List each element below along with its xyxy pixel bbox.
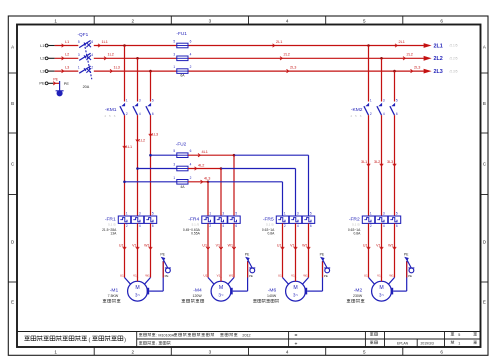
svg-text:PE: PE bbox=[39, 82, 45, 86]
svg-text:1L1: 1L1 bbox=[102, 40, 108, 44]
svg-text:3: 3 bbox=[173, 52, 175, 56]
svg-text:W1: W1 bbox=[228, 243, 233, 247]
svg-text:1: 1 bbox=[370, 212, 372, 216]
svg-text:2: 2 bbox=[126, 224, 128, 228]
svg-text:1L2: 1L2 bbox=[139, 138, 145, 142]
svg-text:U1: U1 bbox=[119, 243, 124, 247]
svg-text:5: 5 bbox=[173, 40, 175, 44]
svg-text:0.8A: 0.8A bbox=[268, 232, 276, 236]
svg-text:2L1: 2L1 bbox=[399, 40, 405, 44]
svg-text:1: 1 bbox=[458, 341, 460, 345]
svg-text:140W: 140W bbox=[267, 294, 277, 298]
svg-text:1: 1 bbox=[54, 18, 57, 23]
svg-text:/2.3/5: /2.3/5 bbox=[450, 69, 458, 73]
svg-text:4: 4 bbox=[383, 112, 385, 116]
svg-text:5: 5 bbox=[152, 212, 154, 216]
svg-text:3~: 3~ bbox=[293, 293, 299, 298]
svg-text:3: 3 bbox=[383, 212, 385, 216]
svg-text:4L2: 4L2 bbox=[198, 163, 204, 167]
svg-text:1: 1 bbox=[126, 99, 128, 103]
svg-text:2: 2 bbox=[370, 224, 372, 228]
svg-text:4: 4 bbox=[139, 224, 141, 228]
svg-text:5: 5 bbox=[363, 350, 366, 355]
svg-text:2L2: 2L2 bbox=[284, 53, 290, 57]
svg-text:+: + bbox=[295, 341, 298, 347]
svg-text:6: 6 bbox=[190, 40, 192, 44]
svg-text:A: A bbox=[483, 45, 486, 50]
svg-text:5.1 /5: 5.1 /5 bbox=[108, 223, 116, 227]
svg-text:1: 1 bbox=[54, 350, 57, 355]
svg-text:-FR2: -FR2 bbox=[349, 216, 360, 222]
svg-text:PE: PE bbox=[249, 274, 253, 278]
svg-text:4 5 6: 4 5 6 bbox=[350, 114, 362, 118]
svg-text:6: 6 bbox=[396, 224, 398, 228]
svg-text:6: 6 bbox=[235, 224, 237, 228]
svg-text:5: 5 bbox=[152, 99, 154, 103]
svg-text:-M6: -M6 bbox=[268, 287, 277, 293]
svg-text:5.1 /5: 5.1 /5 bbox=[192, 223, 200, 227]
svg-text:-KM1: -KM1 bbox=[105, 107, 117, 113]
svg-text:2019/3/3: 2019/3/3 bbox=[421, 341, 434, 345]
svg-text:4: 4 bbox=[286, 18, 289, 23]
svg-text:EPLAN: EPLAN bbox=[397, 341, 409, 345]
svg-text:-FU1: -FU1 bbox=[176, 31, 187, 36]
svg-text:U1: U1 bbox=[278, 274, 282, 278]
svg-text:-FR1: -FR1 bbox=[105, 216, 116, 222]
svg-text:W1: W1 bbox=[389, 274, 394, 278]
svg-text:W1: W1 bbox=[388, 243, 393, 247]
svg-text:5: 5 bbox=[396, 99, 398, 103]
svg-text:120W: 120W bbox=[193, 294, 203, 298]
svg-text:B: B bbox=[483, 101, 486, 106]
svg-text:2L3: 2L3 bbox=[290, 66, 296, 70]
svg-text:V1: V1 bbox=[133, 274, 137, 278]
svg-text:2: 2 bbox=[91, 66, 93, 70]
svg-text:3: 3 bbox=[139, 99, 141, 103]
svg-text:3L3: 3L3 bbox=[387, 160, 393, 164]
svg-text:PE: PE bbox=[160, 252, 165, 256]
svg-text::: : bbox=[156, 334, 157, 338]
svg-text:2: 2 bbox=[209, 224, 211, 228]
svg-text:3L2: 3L2 bbox=[374, 160, 380, 164]
svg-text:V1: V1 bbox=[290, 243, 294, 247]
svg-text:1L3: 1L3 bbox=[114, 66, 120, 70]
svg-text:PE: PE bbox=[64, 82, 70, 86]
svg-text:2: 2 bbox=[131, 350, 134, 355]
svg-text:D: D bbox=[11, 240, 14, 245]
svg-text:): ) bbox=[124, 337, 126, 343]
svg-text:6: 6 bbox=[152, 224, 154, 228]
svg-text:3L1: 3L1 bbox=[361, 160, 367, 164]
svg-text:E: E bbox=[483, 300, 486, 305]
svg-text:W1: W1 bbox=[145, 274, 150, 278]
svg-text:U1: U1 bbox=[364, 274, 368, 278]
svg-text:2: 2 bbox=[131, 18, 134, 23]
svg-text:1L2: 1L2 bbox=[108, 53, 114, 57]
svg-text:V1: V1 bbox=[132, 243, 136, 247]
svg-text:6: 6 bbox=[310, 224, 312, 228]
svg-text:M: M bbox=[219, 285, 223, 291]
svg-text:PE: PE bbox=[53, 78, 58, 82]
svg-text:U1: U1 bbox=[203, 274, 207, 278]
svg-text:L2: L2 bbox=[40, 57, 44, 61]
svg-text:3~: 3~ bbox=[218, 293, 224, 298]
svg-text:2: 2 bbox=[190, 176, 192, 180]
svg-text:-FR4: -FR4 bbox=[188, 216, 199, 222]
svg-text:5: 5 bbox=[396, 212, 398, 216]
svg-text:V1: V1 bbox=[377, 274, 381, 278]
svg-text:3: 3 bbox=[173, 163, 175, 167]
svg-text:1: 1 bbox=[78, 66, 80, 70]
svg-text:-FU2: -FU2 bbox=[176, 141, 187, 146]
svg-text:2: 2 bbox=[370, 112, 372, 116]
svg-text:3: 3 bbox=[78, 53, 80, 57]
svg-text:1L3: 1L3 bbox=[152, 133, 158, 137]
svg-text:3~: 3~ bbox=[135, 293, 141, 298]
svg-text:6: 6 bbox=[152, 112, 154, 116]
svg-text:/2.1/5: /2.1/5 bbox=[450, 44, 458, 48]
svg-text::: : bbox=[156, 342, 157, 346]
svg-text:-M4: -M4 bbox=[193, 287, 202, 293]
svg-text:L1: L1 bbox=[65, 40, 69, 44]
svg-text:U1: U1 bbox=[120, 274, 124, 278]
svg-text:PE: PE bbox=[245, 252, 250, 256]
svg-text:2: 2 bbox=[284, 224, 286, 228]
svg-text:PE: PE bbox=[404, 252, 409, 256]
svg-text:5: 5 bbox=[458, 333, 460, 337]
svg-text:6: 6 bbox=[440, 350, 443, 355]
svg-text:-FR5: -FR5 bbox=[263, 216, 274, 222]
svg-text:PE: PE bbox=[408, 274, 412, 278]
svg-text:6: 6 bbox=[91, 40, 93, 44]
svg-text:3: 3 bbox=[139, 212, 141, 216]
svg-text:V1: V1 bbox=[291, 274, 295, 278]
svg-text:L3: L3 bbox=[65, 66, 69, 70]
svg-text:V1: V1 bbox=[376, 243, 380, 247]
svg-text:5: 5 bbox=[235, 212, 237, 216]
svg-text:230W: 230W bbox=[353, 294, 363, 298]
svg-text:D: D bbox=[483, 240, 486, 245]
svg-text:4: 4 bbox=[139, 112, 141, 116]
svg-text:20A: 20A bbox=[83, 85, 90, 89]
svg-text:A: A bbox=[11, 45, 14, 50]
svg-text:5: 5 bbox=[173, 149, 175, 153]
svg-text:-KM2: -KM2 bbox=[351, 107, 363, 113]
svg-text:4: 4 bbox=[190, 163, 192, 167]
svg-text:-QF1: -QF1 bbox=[78, 32, 89, 37]
svg-text:W1: W1 bbox=[229, 274, 234, 278]
svg-text:2L2: 2L2 bbox=[407, 53, 413, 57]
svg-text:4L1: 4L1 bbox=[202, 150, 208, 154]
svg-text:/2.2/5: /2.2/5 bbox=[450, 57, 458, 61]
svg-text:3: 3 bbox=[222, 212, 224, 216]
svg-text:3~: 3~ bbox=[379, 293, 385, 298]
svg-text:1: 1 bbox=[173, 176, 175, 180]
svg-text:M10100A: M10100A bbox=[158, 334, 174, 338]
svg-text:3: 3 bbox=[209, 18, 212, 23]
svg-text:M: M bbox=[135, 285, 139, 291]
svg-text:5: 5 bbox=[363, 18, 366, 23]
svg-text:-M1: -M1 bbox=[110, 287, 119, 293]
svg-text:1: 1 bbox=[173, 65, 175, 69]
svg-text:U1: U1 bbox=[277, 243, 282, 247]
svg-text:2L2: 2L2 bbox=[434, 56, 443, 62]
svg-text:(: ( bbox=[89, 337, 91, 343]
svg-text:4: 4 bbox=[383, 224, 385, 228]
svg-text:5: 5 bbox=[78, 40, 80, 44]
svg-text:B: B bbox=[11, 101, 14, 106]
svg-text:6: 6 bbox=[396, 112, 398, 116]
svg-text:V1: V1 bbox=[216, 243, 220, 247]
svg-text:7.5KW: 7.5KW bbox=[108, 294, 119, 298]
svg-text:6: 6 bbox=[440, 18, 443, 23]
svg-text:4A: 4A bbox=[180, 185, 185, 189]
svg-text:3: 3 bbox=[209, 350, 212, 355]
svg-text:1: 1 bbox=[284, 212, 286, 216]
svg-text:PE: PE bbox=[165, 274, 169, 278]
svg-text:2: 2 bbox=[190, 65, 192, 69]
svg-text:L2: L2 bbox=[65, 53, 69, 57]
svg-text:4: 4 bbox=[297, 224, 299, 228]
svg-text:2L3: 2L3 bbox=[414, 66, 420, 70]
svg-text:5.1 /5: 5.1 /5 bbox=[266, 223, 274, 227]
svg-text:C: C bbox=[483, 162, 486, 167]
svg-text:1L1: 1L1 bbox=[126, 145, 132, 149]
svg-text:3: 3 bbox=[383, 99, 385, 103]
svg-text:1: 1 bbox=[209, 212, 211, 216]
svg-text:1: 1 bbox=[370, 99, 372, 103]
svg-text:4: 4 bbox=[190, 52, 192, 56]
svg-text:-M2: -M2 bbox=[354, 287, 363, 293]
svg-text:0.55A: 0.55A bbox=[191, 232, 200, 236]
svg-text:M: M bbox=[379, 285, 383, 291]
svg-text:W1: W1 bbox=[302, 243, 307, 247]
svg-text:6A: 6A bbox=[180, 74, 185, 78]
svg-text:4: 4 bbox=[222, 224, 224, 228]
svg-text:4: 4 bbox=[91, 53, 93, 57]
svg-text:13A: 13A bbox=[110, 232, 117, 236]
svg-text:=: = bbox=[295, 333, 298, 339]
svg-text:3: 3 bbox=[297, 212, 299, 216]
svg-text:PE: PE bbox=[324, 274, 328, 278]
svg-text:2L1: 2L1 bbox=[276, 40, 282, 44]
svg-text:W1: W1 bbox=[303, 274, 308, 278]
svg-text:2: 2 bbox=[126, 112, 128, 116]
svg-text:L3: L3 bbox=[40, 70, 44, 74]
svg-text:4 5 6: 4 5 6 bbox=[104, 114, 116, 118]
svg-text:L1: L1 bbox=[40, 44, 44, 48]
svg-text:2L1: 2L1 bbox=[434, 43, 443, 49]
svg-text:C: C bbox=[11, 162, 14, 167]
svg-text:4: 4 bbox=[286, 350, 289, 355]
svg-text:2L3: 2L3 bbox=[434, 69, 443, 75]
svg-text:U1: U1 bbox=[363, 243, 368, 247]
svg-text:6: 6 bbox=[190, 149, 192, 153]
svg-text:W1: W1 bbox=[144, 243, 149, 247]
svg-text:PE: PE bbox=[320, 252, 325, 256]
svg-text:5.1 /5: 5.1 /5 bbox=[352, 223, 360, 227]
svg-text:V1: V1 bbox=[217, 274, 221, 278]
svg-text:U1: U1 bbox=[202, 243, 207, 247]
svg-text:4L3: 4L3 bbox=[204, 177, 210, 181]
svg-text:5: 5 bbox=[310, 212, 312, 216]
svg-text:0.8A: 0.8A bbox=[354, 232, 362, 236]
svg-text:1: 1 bbox=[126, 212, 128, 216]
svg-text:E: E bbox=[11, 300, 14, 305]
svg-text:2012: 2012 bbox=[242, 334, 250, 338]
svg-text:M: M bbox=[293, 285, 297, 291]
